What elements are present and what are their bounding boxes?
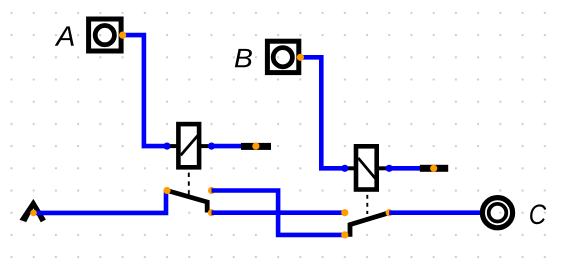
power supply symbol (20, 199, 46, 222)
relay K1 coil (169, 124, 210, 167)
label A (55, 26, 74, 45)
dashed link K2 coil to switch S2 (366, 195, 368, 214)
pin dot button A (119, 31, 126, 38)
wire K2 coil to contact bar (389, 166, 421, 171)
pin dot K2 coil left (341, 165, 348, 172)
switch S2 lever (350, 213, 389, 237)
label C (530, 204, 546, 224)
pin dot S1 lower throw (208, 209, 215, 216)
pin dot power (30, 210, 37, 217)
pin dot K1 coil right (208, 143, 215, 150)
pin dot K2 coil right (386, 165, 393, 172)
wire S2 common to output C (389, 210, 480, 215)
push button B (267, 41, 298, 72)
relay K2 coil (346, 146, 387, 189)
wire B to relay K2 coil (300, 57, 345, 168)
pin dot S1 upper throw (208, 187, 215, 194)
wire A to relay K1 coil (123, 35, 168, 146)
label B (235, 49, 252, 67)
pin dot S2 upper throw (341, 209, 348, 216)
dashed link K1 coil to switch S1 (188, 173, 190, 195)
pin dot contact bar K2 (430, 165, 437, 172)
wire S1 upper throw to S2 lower throw (212, 191, 345, 235)
output C lamp (482, 198, 512, 228)
contact bar K1 (241, 143, 271, 150)
push button A (89, 19, 122, 51)
wire S1 lower throw to S2 upper throw (212, 210, 345, 215)
pin dot S1 common (163, 187, 170, 194)
pin dot button B (297, 54, 304, 61)
pin dot contact bar K1 (252, 143, 259, 150)
wire power to switch S1 common (34, 191, 167, 213)
pin dot K1 coil left (163, 143, 170, 150)
contact bar K2 (420, 165, 448, 172)
switch S1 lever (167, 191, 207, 213)
pin dot S2 common (386, 209, 393, 216)
wire K1 coil to contact bar (212, 144, 243, 149)
pin dot S2 lower throw (341, 231, 348, 238)
